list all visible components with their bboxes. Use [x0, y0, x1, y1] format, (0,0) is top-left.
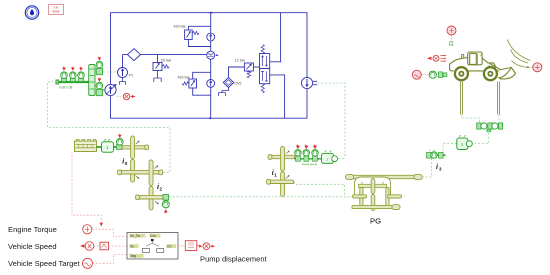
svg-text:0: 0 — [125, 161, 128, 166]
svg-text:Targ: Targ — [130, 254, 136, 258]
svg-text:P1: P1 — [129, 74, 133, 78]
svg-text:Pump displacement: Pump displacement — [200, 255, 268, 264]
svg-text:CV2: CV2 — [235, 82, 242, 86]
svg-text:stats: stats — [52, 9, 59, 13]
svg-text:0.08 0.08: 0.08 0.08 — [59, 85, 73, 89]
svg-text:420 bar: 420 bar — [178, 75, 191, 79]
svg-text:1: 1 — [274, 173, 277, 178]
svg-text:Engine Torque: Engine Torque — [8, 225, 57, 234]
svg-text:De_Tor: De_Tor — [130, 234, 141, 238]
svg-text:Vehicle Speed: Vehicle Speed — [8, 242, 57, 251]
svg-text:2: 2 — [160, 187, 163, 192]
svg-text:PG: PG — [370, 217, 381, 226]
svg-text:20 bar: 20 bar — [161, 58, 172, 62]
svg-text:Ve: Ve — [130, 244, 134, 248]
svg-text:CVs: CVs — [150, 234, 156, 238]
svg-text:3: 3 — [439, 167, 442, 172]
svg-text:12 bar: 12 bar — [235, 59, 246, 63]
svg-text:420 bar: 420 bar — [174, 25, 187, 29]
svg-text:Vehicle Speed Target: Vehicle Speed Target — [8, 259, 81, 268]
